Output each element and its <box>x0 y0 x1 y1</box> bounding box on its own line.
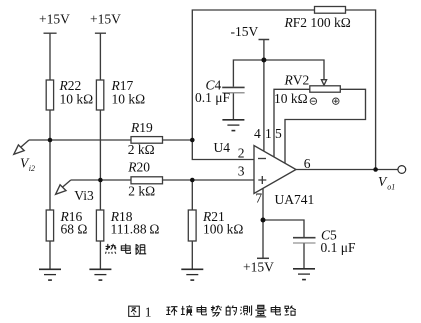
svg-text:i2: i2 <box>29 164 35 173</box>
svg-text:5: 5 <box>275 126 282 141</box>
svg-text:o1: o1 <box>387 182 395 191</box>
svg-text:6: 6 <box>304 156 311 171</box>
svg-text:3: 3 <box>238 164 245 179</box>
svg-text:10 kΩ: 10 kΩ <box>60 91 94 106</box>
svg-text:0.1 μF: 0.1 μF <box>195 90 230 105</box>
svg-text:U4: U4 <box>214 140 231 155</box>
svg-text:10 kΩ: 10 kΩ <box>112 91 146 106</box>
svg-text:2: 2 <box>238 146 245 161</box>
svg-text:-15V: -15V <box>231 24 259 39</box>
svg-text:+15V: +15V <box>90 12 121 27</box>
svg-text:RV2: RV2 <box>284 73 310 88</box>
svg-text:4: 4 <box>254 126 261 141</box>
svg-text:7: 7 <box>255 190 262 205</box>
svg-text:2 kΩ: 2 kΩ <box>128 184 155 199</box>
svg-text:RF2 100 kΩ: RF2 100 kΩ <box>284 15 351 30</box>
svg-text:+15V: +15V <box>39 12 70 27</box>
svg-text:+15V: +15V <box>243 260 274 275</box>
svg-text:R19: R19 <box>130 120 153 135</box>
svg-text:111.88 Ω: 111.88 Ω <box>111 222 160 237</box>
svg-text:UA741: UA741 <box>275 192 315 207</box>
svg-text:2 kΩ: 2 kΩ <box>128 142 155 157</box>
svg-text:1: 1 <box>145 304 152 319</box>
svg-text:Vi3: Vi3 <box>74 188 94 203</box>
svg-text:100 kΩ: 100 kΩ <box>203 222 243 237</box>
svg-text:10 kΩ: 10 kΩ <box>274 91 308 106</box>
svg-text:R20: R20 <box>127 160 150 175</box>
svg-text:0.1 μF: 0.1 μF <box>321 240 356 255</box>
svg-text:1: 1 <box>265 126 272 141</box>
svg-text:68 Ω: 68 Ω <box>61 222 88 237</box>
